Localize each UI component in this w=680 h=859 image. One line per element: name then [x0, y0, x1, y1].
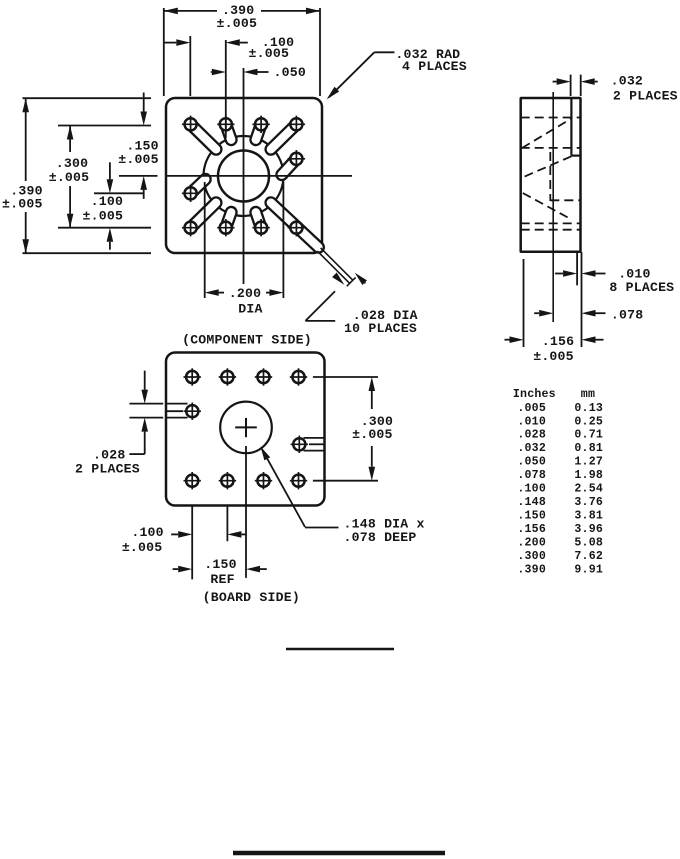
svg-text:.100: .100: [517, 483, 546, 496]
svg-text:2 PLACES: 2 PLACES: [75, 461, 140, 476]
svg-text:2.54: 2.54: [574, 483, 603, 496]
svg-text:.050: .050: [517, 456, 546, 469]
svg-text:10 PLACES: 10 PLACES: [344, 321, 417, 336]
svg-text:0.71: 0.71: [574, 429, 603, 442]
svg-text:.148: .148: [517, 496, 546, 509]
svg-text:REF: REF: [210, 572, 234, 587]
svg-text:3.81: 3.81: [574, 510, 603, 523]
svg-text:±.005: ±.005: [122, 540, 163, 555]
svg-text:.150: .150: [517, 510, 546, 523]
svg-text:±.005: ±.005: [83, 209, 124, 224]
svg-text:±.005: ±.005: [2, 197, 43, 212]
svg-text:.100: .100: [131, 525, 163, 540]
svg-text:4 PLACES: 4 PLACES: [402, 59, 467, 74]
svg-text:.156: .156: [517, 523, 546, 536]
svg-text:5.08: 5.08: [574, 537, 603, 550]
svg-text:0.13: 0.13: [574, 402, 603, 415]
svg-text:(BOARD SIDE): (BOARD SIDE): [203, 590, 300, 605]
svg-text:.032: .032: [611, 74, 643, 89]
svg-text:.200: .200: [517, 537, 546, 550]
svg-text:.028: .028: [517, 429, 546, 442]
svg-text:±.005: ±.005: [249, 46, 290, 61]
svg-text:±.005: ±.005: [118, 152, 159, 167]
svg-text:0.81: 0.81: [574, 442, 603, 455]
svg-text:9.91: 9.91: [574, 563, 603, 576]
svg-text:.300: .300: [56, 156, 88, 171]
svg-text:DIA: DIA: [238, 302, 262, 317]
svg-text:(COMPONENT SIDE): (COMPONENT SIDE): [182, 333, 312, 348]
svg-text:Inches: Inches: [513, 388, 556, 401]
svg-text:.005: .005: [517, 402, 546, 415]
svg-text:.150: .150: [204, 557, 236, 572]
svg-text:±.005: ±.005: [352, 427, 393, 442]
svg-text:.156: .156: [542, 334, 574, 349]
svg-text:±.005: ±.005: [217, 16, 258, 31]
svg-text:3.76: 3.76: [574, 496, 603, 509]
svg-text:3.96: 3.96: [574, 523, 603, 536]
svg-text:mm: mm: [581, 388, 595, 401]
svg-text:.100: .100: [91, 194, 123, 209]
svg-text:.078: .078: [517, 469, 546, 482]
svg-text:.078 DEEP: .078 DEEP: [344, 530, 417, 545]
svg-text:.050: .050: [274, 65, 306, 80]
svg-text:.028: .028: [93, 447, 125, 462]
svg-text:.200: .200: [229, 286, 261, 301]
svg-text:.078: .078: [611, 308, 643, 323]
svg-text:7.62: 7.62: [574, 550, 603, 563]
svg-text:2 PLACES: 2 PLACES: [613, 89, 678, 104]
svg-text:.010: .010: [517, 415, 546, 428]
svg-text:8 PLACES: 8 PLACES: [609, 280, 674, 295]
svg-text:1.98: 1.98: [574, 469, 603, 482]
svg-text:.032: .032: [517, 442, 546, 455]
svg-text:1.27: 1.27: [574, 456, 603, 469]
svg-text:±.005: ±.005: [533, 349, 574, 364]
svg-text:.390: .390: [517, 563, 546, 576]
svg-text:±.005: ±.005: [49, 170, 90, 185]
svg-text:0.25: 0.25: [574, 415, 603, 428]
svg-text:.300: .300: [517, 550, 546, 563]
